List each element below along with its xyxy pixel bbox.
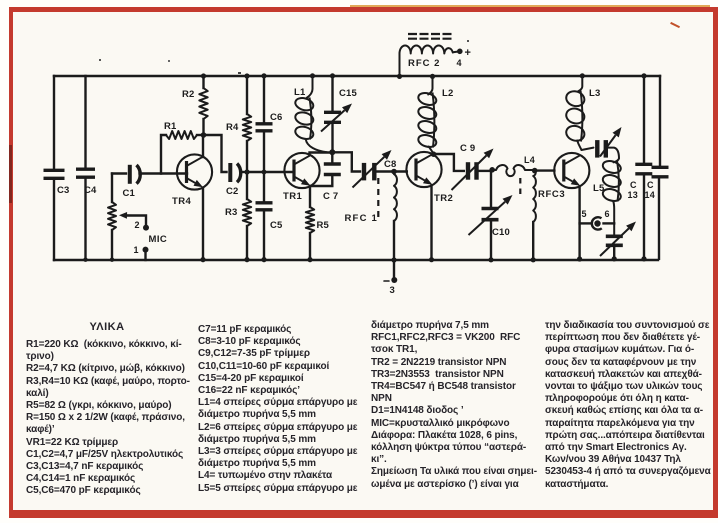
capacitor C7 (310, 149, 341, 202)
svg-text:MIC: MIC (149, 234, 168, 245)
frame top (9, 7, 718, 12)
svg-text:C2: C2 (226, 186, 239, 197)
transistor TR4 (172, 135, 212, 262)
svg-text:C15: C15 (339, 88, 358, 99)
parts list column 2 (198, 324, 368, 495)
inductor L2 (417, 74, 454, 157)
svg-text:4: 4 (457, 58, 462, 68)
wire base TR1 (244, 169, 294, 174)
svg-text:C10: C10 (492, 227, 510, 238)
wire collector TR1 node (310, 153, 333, 155)
dashed core RFC1 (377, 178, 379, 218)
stray red mark (670, 22, 680, 29)
svg-text:TR1: TR1 (283, 191, 302, 202)
svg-text:C 7: C 7 (323, 191, 338, 202)
resistor R1 (161, 121, 204, 174)
inductor L4 (492, 155, 537, 176)
svg-text:TR2: TR2 (434, 193, 453, 204)
capacitor C11 variable (582, 127, 622, 162)
svg-text:1: 1 (134, 245, 139, 255)
svg-text:R3: R3 (225, 207, 238, 218)
choke RFC1 (345, 169, 397, 260)
capacitor C2 (226, 163, 246, 197)
note column 4 (545, 320, 710, 491)
svg-text:C: C (647, 180, 654, 190)
resistor R5 (306, 186, 330, 262)
junction dot L1 top (310, 73, 315, 78)
capacitor C12 variable (600, 222, 636, 262)
capacitor C3 (44, 76, 70, 260)
capacitor C13 (628, 73, 653, 261)
inductor L3 (564, 73, 600, 150)
transistor TR2 (406, 152, 453, 204)
capacitor C14 (645, 76, 669, 259)
choke RFC2 (397, 45, 471, 79)
svg-text:C8: C8 (384, 159, 397, 170)
frame right (713, 7, 718, 518)
capacitor C8 trimmer (332, 150, 407, 188)
svg-text:C: C (630, 180, 637, 190)
capacitor C9 trimmer (434, 143, 494, 190)
svg-text:C1: C1 (123, 188, 136, 199)
svg-text:R4: R4 (226, 122, 239, 133)
inductor L1 (294, 76, 327, 152)
svg-text:3: 3 (390, 285, 395, 296)
svg-text:14: 14 (645, 190, 655, 200)
wire collector TR4 to C2 (204, 135, 227, 172)
wiper arrow node 2 (119, 212, 149, 231)
svg-text:L3: L3 (589, 88, 601, 99)
wire bottom ground rail (54, 259, 658, 261)
transistor TR1 (283, 153, 320, 202)
svg-text:13: 13 (628, 190, 638, 200)
frame left (9, 7, 13, 518)
resistor R3 (225, 172, 251, 262)
dashed core L4 (519, 178, 521, 196)
svg-text:L1: L1 (294, 87, 306, 98)
svg-text:RFC3: RFC3 (538, 189, 565, 200)
svg-text:C 9: C 9 (460, 143, 475, 154)
svg-text:L4: L4 (524, 155, 535, 165)
wire top supply rail (54, 75, 660, 77)
dashes above RFC2 (408, 34, 452, 39)
svg-text:R5: R5 (317, 220, 330, 231)
node 1 terminal (134, 245, 149, 260)
node 3 terminal (384, 257, 397, 296)
svg-text:C4: C4 (84, 185, 97, 196)
parts list column 3 (371, 320, 543, 491)
wire base TR3 (535, 169, 555, 171)
wire emitter TR2 (429, 186, 434, 263)
svg-text:R2: R2 (182, 89, 195, 100)
svg-text:RFC 1: RFC 1 (345, 213, 378, 224)
wire emitter TR3 node 5 (577, 187, 587, 262)
svg-text:C3: C3 (57, 185, 70, 196)
capacitor C5 (256, 172, 284, 262)
connector nodes 5 6 (580, 209, 615, 230)
capacitor C10 variable (469, 167, 513, 262)
svg-text:L5: L5 (593, 183, 605, 194)
inductor L5 (593, 159, 622, 234)
svg-text:2: 2 (135, 220, 140, 230)
resistor R2 (182, 73, 208, 137)
svg-text:6: 6 (605, 209, 610, 219)
trimmer VR1 (108, 174, 116, 262)
frame bottom (9, 510, 718, 518)
capacitor C6 (256, 73, 283, 172)
svg-text:R1: R1 (164, 121, 177, 132)
svg-text:C5: C5 (270, 220, 283, 231)
svg-text:+: + (465, 47, 471, 59)
choke RFC3 (531, 171, 566, 263)
capacitor C4 (76, 76, 97, 262)
capacitor C15 variable (321, 73, 358, 152)
svg-text:5: 5 (582, 209, 587, 219)
svg-text:TR4: TR4 (172, 196, 191, 207)
svg-text:C6: C6 (270, 112, 283, 123)
parts list column 1 (26, 339, 192, 498)
resistor R4 (226, 73, 251, 172)
transistor TR3 (554, 153, 589, 188)
label MIC (149, 234, 168, 245)
svg-text:L2: L2 (442, 88, 454, 99)
svg-text:RFC 2: RFC 2 (408, 58, 440, 69)
capacitor C1 (112, 165, 187, 199)
